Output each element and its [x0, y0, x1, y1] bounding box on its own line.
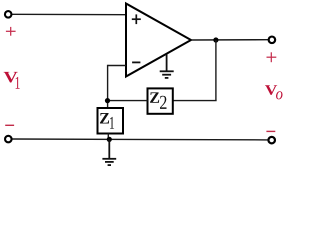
label Z2 [150, 92, 159, 102]
terminal: bottom-left [5, 136, 12, 143]
label + (output polarity top-right) [267, 52, 277, 62]
op-amp + input marker [132, 14, 141, 24]
label Z1 [100, 113, 109, 123]
node: bottom rail junction dot [107, 137, 112, 142]
wire: inverting input feedback (horizontal from - input) [108, 65, 126, 67]
wire: op-amp output to output terminal [191, 39, 269, 41]
wire: feedback horizontal into Z2 right side [173, 100, 217, 102]
wire: output junction down to feedback [215, 40, 217, 101]
terminal: top-left input [5, 11, 12, 18]
label + (input polarity top-left) [6, 27, 16, 36]
terminal: bottom-right [268, 137, 275, 144]
wire: feedback vertical down to node [107, 65, 109, 108]
wire: Z1 bottom to bottom rail [107, 134, 109, 140]
op-amp - input marker [132, 61, 140, 63]
ground at bottom rail [102, 139, 116, 165]
wire: Z2 left side to inverting node [108, 100, 148, 102]
node: output junction dot [213, 37, 218, 42]
ground at op-amp (on hypotenuse) [160, 55, 174, 78]
node: inverting junction dot [105, 98, 110, 103]
op-amp U1 triangle [126, 4, 191, 77]
wire: input terminal to op-amp + input [12, 13, 126, 15]
terminal: top-right output [269, 37, 276, 44]
impedance Z1 box [98, 108, 124, 134]
label Vo [265, 85, 277, 95]
label V1 [4, 72, 18, 83]
label - (output polarity bottom-right) [266, 130, 275, 132]
label - (input polarity bottom-left) [5, 124, 14, 126]
impedance Z2 box [148, 88, 173, 113]
wire: bottom rail [12, 138, 268, 141]
